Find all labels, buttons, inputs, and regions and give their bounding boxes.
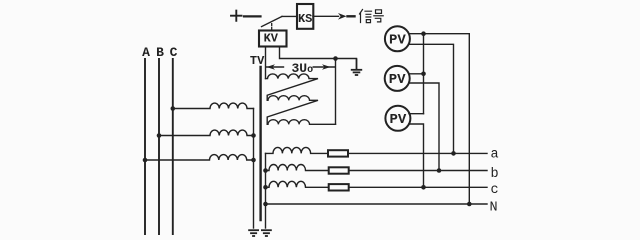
voltmeter PV2 <box>385 66 410 91</box>
svg-text:KV: KV <box>264 32 279 46</box>
wire KV left lead to open-delta <box>265 47 267 79</box>
fuse FU c <box>329 184 349 190</box>
svg-text:N: N <box>490 201 498 216</box>
wire contact to KS <box>282 15 297 17</box>
wire PV2 upper <box>409 73 424 75</box>
junction drop on N <box>467 202 472 207</box>
wire primary neutral bus <box>253 109 255 229</box>
junction open-delta right bus <box>333 56 338 61</box>
junction on A <box>143 158 148 163</box>
junction primary bus row B <box>251 133 256 138</box>
fuse FU b <box>329 167 349 173</box>
fuse FU a <box>328 150 348 156</box>
wire secondary star neutral bus <box>265 153 267 228</box>
junction drop on a <box>451 151 456 156</box>
signal arrowhead <box>338 13 347 20</box>
TV secondary winding a <box>266 147 329 153</box>
svg-text:PV: PV <box>389 33 406 49</box>
TV primary winding phase C <box>173 103 254 108</box>
signal dash <box>348 15 355 17</box>
wire PV1 upper to N drop <box>409 34 469 204</box>
TV primary winding phase B <box>159 130 254 135</box>
junction drop on c <box>421 185 426 190</box>
svg-text:PV: PV <box>389 72 406 88</box>
ground secondary neutral <box>261 230 272 236</box>
wire KS to signal arrow <box>313 15 339 17</box>
svg-text:PV: PV <box>389 112 406 128</box>
junction secondary bus b <box>263 168 268 173</box>
wire PV2 lower to phase b <box>409 83 439 171</box>
dc supply plus terminal <box>231 11 242 21</box>
svg-text:b: b <box>491 167 499 182</box>
KV contact linkage (dashed) <box>271 24 273 31</box>
ground primary neutral <box>248 230 259 236</box>
svg-text:c: c <box>491 183 499 198</box>
open-delta winding coil 2 <box>267 96 318 125</box>
junction PV1 upper / PV common <box>421 31 426 36</box>
TV secondary winding c <box>266 181 329 187</box>
wire PV common vertical <box>423 34 425 114</box>
wire PV3 lower to phase c <box>409 124 424 187</box>
junction drop on b <box>437 168 442 173</box>
wire phase A busbar <box>144 59 146 234</box>
TV core <box>259 67 261 220</box>
svg-text:C: C <box>170 45 178 60</box>
3Uo dimension arrows <box>267 64 335 70</box>
ground open-delta <box>351 59 362 76</box>
svg-text:A: A <box>142 45 150 60</box>
voltmeter PV3 <box>385 106 410 131</box>
relay KV <box>259 31 287 47</box>
junction secondary bus N <box>263 202 268 207</box>
junction primary bus row A <box>251 158 256 163</box>
svg-text:a: a <box>491 148 499 163</box>
junction on B <box>157 133 162 138</box>
wire dc supply stub <box>244 15 261 17</box>
wire KV right lead <box>280 47 357 59</box>
wire neutral N <box>266 203 488 205</box>
wire phase B busbar <box>158 59 160 234</box>
junction secondary bus c <box>263 185 268 190</box>
TV secondary winding b <box>266 164 329 170</box>
junction on C <box>171 106 176 111</box>
svg-text:TV: TV <box>250 54 265 68</box>
open-delta winding coil 3 <box>267 120 335 125</box>
voltmeter PV1 <box>385 26 410 51</box>
label Xin (signal char 1) <box>360 10 372 23</box>
wire phase c <box>349 186 487 188</box>
wire open-delta right bus <box>335 59 337 125</box>
junction PV2 upper <box>421 72 426 77</box>
wire phase a <box>348 152 487 154</box>
relay KS <box>297 4 313 29</box>
open-delta winding coil 1 <box>266 74 319 100</box>
KV contact blade <box>262 16 283 26</box>
wire PV1 lower to phase a <box>409 44 454 153</box>
TV primary winding phase A <box>145 155 254 160</box>
label Hao (signal char 2) <box>374 10 383 22</box>
wire phase b <box>349 170 487 172</box>
wire PV3 upper <box>409 113 424 115</box>
wire phase C busbar <box>172 59 174 234</box>
svg-text:B: B <box>156 45 164 60</box>
svg-text:KS: KS <box>298 12 312 26</box>
